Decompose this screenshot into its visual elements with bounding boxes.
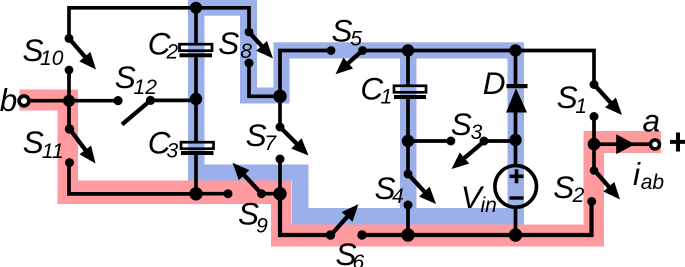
- node J1 at b: [63, 95, 75, 107]
- wire: b terminal to S12: [28, 99, 118, 103]
- switch S2: [587, 166, 620, 206]
- blue path band: top wire segment: [205, 0, 258, 16]
- pink path band: S11 column: [58, 90, 79, 205]
- blue path band: C1/S4 column: [400, 59, 417, 209]
- wire: J7 to diode: [514, 51, 518, 85]
- wire: S3 to J9: [484, 139, 516, 143]
- switch S11: [65, 124, 96, 167]
- node J3 below C3: [189, 187, 202, 200]
- wire: diode to J9: [514, 113, 518, 142]
- wire: J5 down to bottom rail: [280, 194, 331, 235]
- switch S3: [446, 137, 488, 170]
- wire: S7 bottom to J5: [278, 159, 282, 194]
- blue path band: J4 column: [274, 42, 290, 103]
- switch S12: [113, 96, 155, 125]
- node J5 at S7/S9: [273, 187, 286, 200]
- svg-text:D: D: [483, 65, 506, 101]
- switch S7: [276, 123, 309, 164]
- wire: J3 to S9: [196, 192, 228, 196]
- wire: S8 bottom to J4: [249, 63, 280, 96]
- terminal b: [19, 96, 29, 106]
- wire: C1 top lead: [406, 51, 410, 86]
- wire: J4 down to S7: [278, 96, 282, 127]
- node J7 at D top: [509, 44, 521, 56]
- switch S10: [65, 34, 97, 75]
- wire: J4 up to S5 row: [280, 51, 331, 97]
- wire: S10 bottom to node b junction: [67, 70, 71, 101]
- node J8 at C1 bottom: [402, 135, 414, 147]
- wire: J12 to terminal a: [594, 142, 650, 146]
- blue path band: S5/C1/D row: [290, 42, 508, 58]
- wire: S4 bottom to bottom rail: [406, 205, 410, 235]
- capacitor C1: [394, 86, 426, 99]
- pink path band: J5 column: [271, 204, 292, 247]
- wire: C3 to node J3: [194, 155, 198, 194]
- capacitor C2: [180, 44, 213, 57]
- pink path band: b wire: [20, 90, 58, 111]
- switch S1: [590, 80, 623, 121]
- wire: S11 down and across to J3: [69, 163, 196, 194]
- wire: Vin bottom to J10: [514, 207, 518, 235]
- node J9 at D bottom: [509, 134, 521, 146]
- switch S4: [404, 170, 437, 210]
- switch S8: [245, 28, 274, 68]
- switch S9: [224, 163, 267, 199]
- wire: S12 to C column: [151, 99, 197, 103]
- pink path band: a wire: [604, 131, 661, 153]
- blue path band: D/Vin column: [508, 42, 525, 224]
- node J6 at C1 top: [402, 44, 414, 56]
- node J2 between C2 and C3: [190, 93, 202, 105]
- blue path band: S8-J4 link: [257, 88, 274, 104]
- pink path band: S2 column: [584, 131, 605, 247]
- blue path band: bottom row offset: [309, 208, 508, 225]
- wire: bottom rail to S2: [362, 202, 592, 236]
- wire: S9 to J5: [261, 192, 280, 196]
- wire: J8 down to S4: [406, 141, 410, 174]
- wire: S5 to top-right corner down to S1: [363, 51, 595, 85]
- wire: J2 to C3: [194, 99, 198, 142]
- wire: C2 to node J2: [194, 57, 198, 99]
- node J11 at S4 bottom: [401, 228, 414, 241]
- wire: J9 to Vin top: [514, 141, 518, 166]
- capacitor C3: [181, 142, 214, 155]
- blue path band: S8 column: [240, 16, 257, 104]
- wire: top rail: [69, 8, 249, 39]
- wire: C1 bottom lead to J8: [406, 99, 410, 141]
- label plus terminal: [670, 133, 685, 152]
- diode D: [506, 84, 528, 113]
- node J12 at a branch: [588, 138, 601, 151]
- pink path band: bottom row: [292, 225, 584, 247]
- current arrow i_ab: [616, 134, 635, 154]
- voltage source Vin: [495, 166, 537, 208]
- wire: J8 to S3: [408, 139, 451, 143]
- node J4 at S8/S7: [273, 90, 286, 103]
- svg-text:a: a: [643, 103, 661, 139]
- switch S5: [327, 46, 367, 74]
- wire: S1 bottom to J12: [592, 117, 596, 145]
- node: top C2 junction: [190, 2, 202, 14]
- wire: node b junction down to S11: [67, 100, 71, 129]
- blue path band: C3-S9 row offset: [188, 165, 292, 181]
- terminal a: [651, 140, 660, 149]
- blue path band: J5 column offset: [292, 165, 309, 225]
- svg-text:b: b: [0, 82, 17, 118]
- node J10 at Vin bottom: [509, 228, 522, 241]
- wire: S2 top to J12: [592, 144, 596, 170]
- pink path band: S9 row: [78, 181, 292, 205]
- blue path band: C2/C3 column: [188, 0, 205, 165]
- switch S6: [326, 204, 367, 239]
- wire: top rail to C2: [194, 8, 198, 44]
